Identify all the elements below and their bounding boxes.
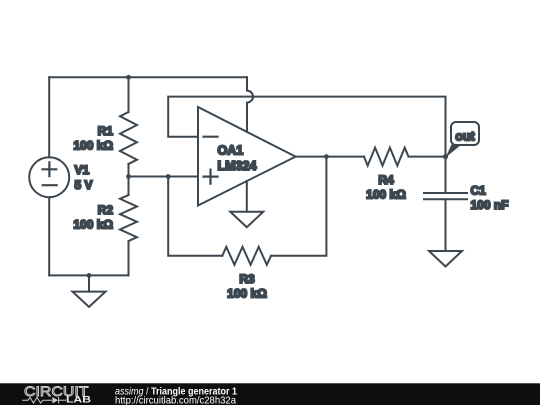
svg-text:R2: R2 (98, 203, 114, 217)
capacitor C1 (424, 193, 467, 199)
wire: R4 to out node (409, 156, 446, 158)
node flag out (446, 122, 480, 158)
svg-text:100 kΩ: 100 kΩ (366, 188, 406, 202)
wire: V1 bottom stem (48, 197, 50, 275)
wire: R3 left leg from plus node (168, 177, 222, 256)
wire: minus input feedback to out node (168, 97, 445, 157)
svg-text:LM324: LM324 (218, 159, 257, 173)
svg-text:C1: C1 (471, 184, 487, 198)
svg-text:R4: R4 (378, 173, 394, 187)
svg-text:out: out (455, 130, 475, 144)
svg-text:5 V: 5 V (75, 178, 93, 192)
voltage source V1 (29, 157, 69, 197)
svg-text:LAB: LAB (66, 395, 91, 405)
node: junction dot R1 top on rail (126, 75, 131, 80)
svg-text:http://circuitlab.com/c28h32a: http://circuitlab.com/c28h32a (115, 396, 236, 405)
svg-text:100 kΩ: 100 kΩ (73, 139, 113, 153)
footer bar (0, 383, 540, 405)
node: junction dot divider mid (126, 174, 131, 179)
wire: op-amp V- pin (246, 181, 248, 212)
wire: bottom rail (49, 274, 128, 276)
svg-text:100 kΩ: 100 kΩ (227, 287, 267, 301)
svg-text:OA1: OA1 (218, 144, 244, 158)
wire: C1 top lead (445, 157, 447, 193)
ground (below C1) (429, 251, 462, 267)
wire: divider node to op-amp plus input (129, 176, 199, 178)
node: junction dot feedback tap (166, 174, 171, 179)
wire: op-amp V+ pin with hop over feedback wire (247, 77, 253, 131)
wire: V1 top stem (48, 77, 50, 157)
node: junction dot output (324, 154, 329, 159)
svg-text:100 nF: 100 nF (471, 198, 509, 212)
resistor R4 (364, 148, 409, 166)
svg-text:V1: V1 (75, 163, 90, 177)
node: junction dot out (443, 154, 448, 159)
resistor R1 (120, 77, 137, 176)
ground (below V1 rail) (73, 275, 106, 307)
svg-text:R1: R1 (98, 124, 114, 138)
wire: top supply rail (49, 76, 247, 78)
wire: R3 right leg to output node (271, 157, 326, 256)
op-amp OA1 (198, 107, 296, 206)
ground (below op-amp) (230, 212, 263, 228)
resistor R3 (222, 247, 271, 265)
wire: op-amp output (296, 156, 364, 158)
svg-text:R3: R3 (239, 272, 255, 286)
node: junction dot ground tap (87, 273, 92, 278)
logo circuit squiggle (22, 397, 66, 403)
wire: C1 bottom lead (445, 199, 447, 251)
svg-text:100 kΩ: 100 kΩ (73, 218, 113, 232)
resistor R2 (120, 177, 137, 276)
